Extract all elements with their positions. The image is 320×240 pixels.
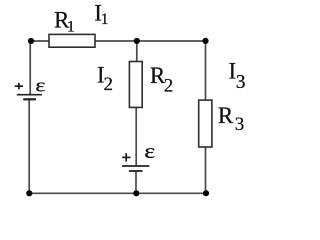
wire right upper <box>205 41 207 100</box>
wire top A-B-C <box>31 40 206 42</box>
svg-text:3: 3 <box>236 72 246 93</box>
battery cell E1 plus sign <box>15 83 23 90</box>
resistor R3 <box>199 100 212 147</box>
wire middle lower <box>135 171 137 193</box>
wire middle upper <box>136 41 138 62</box>
battery cell E1 long plate <box>17 94 42 96</box>
resistor R2 <box>129 62 142 108</box>
wire bottom D-E-F <box>29 192 206 194</box>
node A top-left <box>28 38 34 44</box>
battery cell E2 long plate <box>122 165 149 167</box>
svg-text:2: 2 <box>104 74 114 95</box>
svg-text:ε: ε <box>35 75 45 96</box>
svg-text:R: R <box>218 103 234 128</box>
node B top-middle <box>134 38 140 44</box>
svg-text:1: 1 <box>67 18 75 35</box>
node F bottom-right <box>203 190 209 196</box>
svg-text:1: 1 <box>101 11 109 28</box>
svg-text:ε: ε <box>144 140 155 163</box>
resistor R1 <box>49 34 95 47</box>
node C top-right <box>202 38 208 44</box>
wire left lower <box>28 99 30 193</box>
wire right lower <box>205 147 207 193</box>
battery cell E1 short plate <box>23 98 36 100</box>
svg-text:3: 3 <box>235 114 245 135</box>
svg-text:2: 2 <box>164 75 174 96</box>
node E bottom-middle <box>133 190 139 196</box>
battery cell E2 short plate <box>129 170 143 172</box>
wire middle R2-to-battery <box>135 107 137 166</box>
battery cell E2 plus sign <box>122 153 130 161</box>
wire left upper <box>29 41 31 95</box>
node D bottom-left <box>26 190 32 196</box>
